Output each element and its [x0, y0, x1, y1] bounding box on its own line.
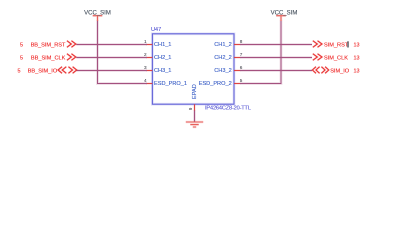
- svg-text:CH3_2: CH3_2: [214, 68, 231, 74]
- svg-text:CH2_2: CH2_2: [214, 55, 231, 61]
- svg-text:VCC_SIM: VCC_SIM: [271, 10, 298, 16]
- svg-text:5: 5: [20, 55, 23, 61]
- svg-text:CH3_1: CH3_1: [154, 68, 171, 74]
- pin 3 stub: [146, 69, 152, 72]
- svg-text:CH2_1: CH2_1: [154, 55, 171, 61]
- svg-text:IP4264CZ8-20-TTL: IP4264CZ8-20-TTL: [205, 106, 251, 112]
- pin number 2: [144, 52, 147, 57]
- refdes U47: [151, 27, 161, 33]
- wire pin5 to VCC_SIM right (elbow): [240, 21, 281, 84]
- pin number 9: [188, 107, 193, 110]
- svg-text:ESD_PRO_1: ESD_PRO_1: [154, 81, 187, 87]
- IC U47 body: [152, 34, 234, 104]
- ground symbol: [186, 122, 203, 127]
- svg-text:EPAD: EPAD: [192, 84, 198, 99]
- svg-text:13: 13: [354, 55, 360, 61]
- svg-text:ESD_PRO_2: ESD_PRO_2: [199, 81, 232, 87]
- power label VCC_SIM left: [84, 10, 111, 16]
- pin name CH1_2: [214, 42, 231, 48]
- pin name CH1_1: [154, 42, 171, 48]
- svg-text:13: 13: [354, 42, 360, 48]
- pin 1 stub: [146, 43, 152, 46]
- svg-text:U47: U47: [151, 27, 161, 33]
- svg-text:BB_SIM_RST: BB_SIM_RST: [31, 42, 66, 48]
- svg-text:SIM_IO: SIM_IO: [330, 68, 350, 74]
- pin number 5: [240, 78, 243, 83]
- pin 8 stub: [234, 43, 240, 46]
- wire pin7 right: [240, 56, 312, 59]
- pin name CH2_1: [154, 55, 171, 61]
- svg-text:BB_SIM_CLK: BB_SIM_CLK: [31, 55, 66, 61]
- value label IP4264CZ8-20-TTL: [205, 106, 251, 112]
- pin 6 stub: [234, 69, 240, 72]
- pin name CH3_1: [154, 68, 171, 74]
- off-page connector SIM_RST (page ref 13): [313, 41, 360, 49]
- pin 2 stub: [146, 56, 152, 59]
- svg-text:SIM_RST: SIM_RST: [324, 42, 349, 48]
- power symbol VCC_SIM right: [276, 16, 286, 21]
- wire pin9 to ground: [193, 111, 196, 122]
- power label VCC_SIM right: [271, 10, 298, 16]
- svg-text:9: 9: [188, 107, 193, 110]
- off-page connector BB_SIM_CLK (page ref 5): [20, 54, 76, 62]
- pin name ESD_PRO_1: [154, 81, 187, 87]
- pin name CH3_2: [214, 68, 231, 74]
- pin name CH2_2: [214, 55, 231, 61]
- power symbol VCC_SIM left: [93, 16, 103, 21]
- pin number 3: [144, 65, 147, 70]
- pin 5 stub: [234, 82, 240, 85]
- pin name EPAD (rotated): [192, 84, 198, 99]
- off-page connector SIM_CLK (page ref 13): [313, 54, 360, 62]
- wire pin8 right: [240, 43, 312, 46]
- svg-text:13: 13: [354, 68, 360, 74]
- wire pin3 left: [76, 69, 147, 72]
- pin 9 stub: [193, 104, 196, 111]
- wire pin4 to VCC_SIM left (elbow): [98, 21, 148, 84]
- wire pin1 left: [76, 43, 147, 46]
- pin number 7: [240, 52, 243, 57]
- svg-text:BB_SIM_IO: BB_SIM_IO: [28, 68, 58, 74]
- svg-text:SIM_CLK: SIM_CLK: [324, 55, 348, 61]
- pin number 1: [144, 39, 147, 44]
- svg-text:CH1_1: CH1_1: [154, 42, 171, 48]
- svg-text:5: 5: [18, 68, 21, 74]
- off-page connector BB_SIM_IO bidirectional (page ref 5): [18, 67, 77, 75]
- pin 7 stub: [234, 56, 240, 59]
- pin number 8: [240, 39, 243, 44]
- svg-text:CH1_2: CH1_2: [214, 42, 231, 48]
- pin number 4: [144, 78, 147, 83]
- wire pin2 left: [76, 56, 147, 59]
- pin number 6: [240, 65, 243, 70]
- svg-text:VCC_SIM: VCC_SIM: [84, 10, 111, 16]
- off-page connector SIM_IO bidirectional (page ref 13): [312, 67, 359, 75]
- wire pin6 right: [240, 69, 312, 72]
- svg-text:5: 5: [20, 42, 23, 48]
- pin 4 stub: [146, 82, 152, 85]
- off-page connector BB_SIM_RST (page ref 5): [20, 41, 76, 49]
- pin name ESD_PRO_2: [199, 81, 232, 87]
- text cursor artifact: [347, 41, 348, 47]
